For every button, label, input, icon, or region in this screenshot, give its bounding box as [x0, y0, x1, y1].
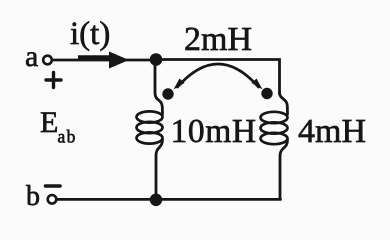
current arrow shaft	[78, 55, 112, 60]
wire middle branch from top junction down	[155, 63, 163, 114]
svg-text:2mH: 2mH	[184, 21, 252, 58]
terminal b (open circle)	[48, 195, 57, 204]
svg-text:ab: ab	[58, 127, 77, 147]
svg-text:a: a	[25, 40, 38, 73]
inductor L2 4mH coil loop 3	[261, 133, 288, 144]
junction dot top	[150, 53, 163, 66]
wire lead into 4mH coil (S-curve)	[280, 92, 288, 114]
bottom wire	[58, 198, 281, 201]
svg-text:E: E	[40, 106, 58, 139]
coupling dot left (10mH dotted terminal)	[162, 88, 173, 99]
inductor L1 10mH coil loop 3	[137, 132, 163, 143]
inductor L2 4mH coil loop 2	[261, 122, 288, 133]
wire lead out of 10mH coil down to bottom junction	[156, 140, 163, 197]
svg-text:10mH: 10mH	[171, 113, 257, 150]
wire lead out of 4mH coil down to bottom-right corner	[280, 140, 288, 198]
coupling dot right (4mH dotted terminal)	[261, 88, 272, 99]
junction dot bottom	[150, 194, 163, 207]
coupling arc arrowhead left	[174, 79, 185, 90]
mutual coupling arc M	[178, 64, 259, 87]
coupling arc arrowhead right	[252, 79, 263, 90]
minus sign (polarity -)	[46, 184, 61, 188]
svg-text:b: b	[26, 181, 40, 212]
svg-text:i(t): i(t)	[70, 16, 110, 52]
wire top junction to top-right corner and down	[156, 60, 280, 95]
inductor L1 10mH coil loop 1	[137, 111, 163, 122]
svg-text:4mH: 4mH	[298, 113, 366, 150]
plus sign (polarity +)	[46, 73, 61, 88]
wire a to top junction	[54, 59, 152, 62]
current arrow head i(t)	[109, 52, 129, 69]
inductor L1 10mH coil loop 2	[137, 122, 163, 133]
inductor L2 4mH coil loop 1	[261, 112, 288, 123]
terminal a (open circle)	[43, 56, 52, 65]
